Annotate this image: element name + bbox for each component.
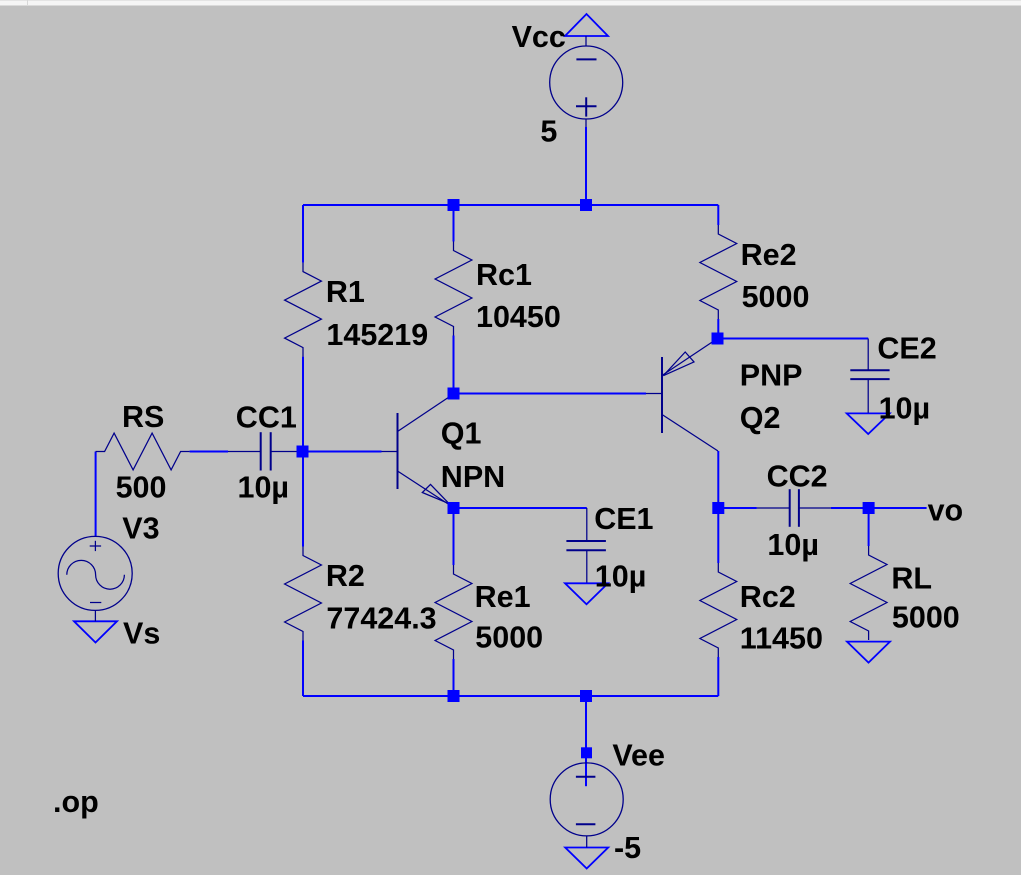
svg-text:10µ: 10µ: [767, 528, 819, 562]
svg-text:Q1: Q1: [441, 417, 482, 451]
svg-text:CE1: CE1: [594, 502, 653, 536]
svg-text:NPN: NPN: [441, 460, 505, 494]
svg-text:5000: 5000: [475, 621, 543, 655]
svg-text:CC2: CC2: [767, 459, 828, 493]
svg-text:Rc1: Rc1: [476, 258, 532, 292]
svg-text:10450: 10450: [476, 300, 561, 334]
svg-text:Re2: Re2: [741, 238, 797, 272]
svg-text:5000: 5000: [892, 600, 960, 634]
svg-text:RL: RL: [891, 562, 932, 596]
svg-text:11450: 11450: [740, 621, 823, 655]
svg-text:77424.3: 77424.3: [326, 602, 436, 636]
svg-text:-5: -5: [614, 831, 641, 865]
svg-text:500: 500: [116, 471, 167, 505]
svg-text:V3: V3: [122, 511, 159, 545]
svg-text:R2: R2: [326, 559, 365, 593]
svg-text:5000: 5000: [742, 280, 810, 314]
svg-text:PNP: PNP: [740, 358, 803, 392]
svg-text:.op: .op: [53, 785, 99, 819]
svg-text:Re1: Re1: [475, 580, 531, 614]
svg-text:Vs: Vs: [123, 617, 160, 651]
svg-text:RS: RS: [122, 400, 164, 434]
svg-text:CE2: CE2: [877, 332, 936, 366]
svg-text:Vee: Vee: [612, 739, 665, 773]
svg-text:vo: vo: [928, 493, 964, 527]
svg-text:10µ: 10µ: [595, 560, 647, 594]
svg-text:5: 5: [540, 114, 557, 148]
svg-text:10µ: 10µ: [238, 471, 290, 505]
svg-text:10µ: 10µ: [879, 392, 931, 426]
svg-text:Vcc: Vcc: [512, 20, 566, 54]
svg-text:CC1: CC1: [236, 400, 297, 434]
svg-text:R1: R1: [326, 275, 365, 309]
svg-text:Rc2: Rc2: [740, 580, 796, 614]
svg-text:Q2: Q2: [740, 401, 781, 435]
svg-text:145219: 145219: [326, 318, 428, 352]
